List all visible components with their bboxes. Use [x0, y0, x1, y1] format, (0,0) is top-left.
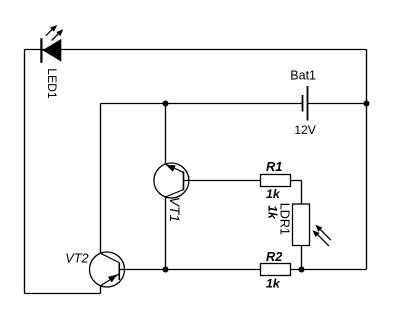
svg-text:R1: R1 — [266, 159, 282, 174]
svg-text:1k: 1k — [266, 205, 280, 220]
svg-text:Bat1: Bat1 — [290, 69, 316, 83]
svg-text:LED1: LED1 — [45, 68, 59, 99]
svg-text:1k: 1k — [266, 277, 281, 291]
svg-text:12V: 12V — [294, 123, 315, 137]
svg-text:1k: 1k — [266, 187, 281, 201]
svg-text:VT1: VT1 — [167, 197, 182, 222]
svg-text:VT2: VT2 — [65, 250, 88, 265]
svg-text:R2: R2 — [266, 249, 282, 264]
